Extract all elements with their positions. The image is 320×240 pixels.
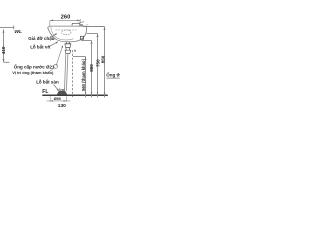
svg-text:WL: WL [14, 29, 22, 35]
svg-text:FL: FL [42, 89, 48, 95]
leader vi tri ong [49, 68, 55, 73]
trap tail pipe [65, 42, 71, 44]
rim right tick [86, 24, 88, 26]
small fitting dot [74, 50, 76, 52]
right leader 2 [87, 34, 98, 98]
waste pipe dashed line [72, 50, 74, 97]
leader gia do chau [51, 34, 57, 38]
bracket [80, 36, 83, 39]
svg-text:260: 260 [61, 14, 71, 20]
trap waist [66, 48, 70, 51]
basin hidden drain ellipse [62, 30, 71, 35]
svg-text:850: 850 [101, 55, 106, 63]
trap nut 2 [65, 50, 71, 53]
svg-text:Lỗ bắt sàn: Lỗ bắt sàn [36, 78, 59, 84]
WL reference line [0, 26, 14, 28]
svg-text:Lỗ bắt vít: Lỗ bắt vít [30, 44, 51, 50]
svg-text:800: 800 [89, 64, 94, 72]
leader lo bat vit [48, 42, 58, 48]
faucet knob [80, 24, 83, 26]
floor line FL [42, 94, 108, 96]
svg-text:560 (tham khảo): 560 (tham khảo) [81, 59, 86, 91]
svg-text:410: 410 [1, 46, 6, 54]
faucet [72, 23, 80, 26]
leader ong cap nuoc [56, 46, 63, 67]
trap nut 1 [65, 44, 71, 48]
inner bowl line [51, 27, 74, 40]
basin hidden dashed line [56, 29, 79, 31]
svg-text:Ống cấp nước Ø21: Ống cấp nước Ø21 [14, 63, 55, 69]
dim arrows right lines [85, 27, 106, 95]
svg-text:130: 130 [58, 103, 66, 109]
dimension line 260 [50, 19, 80, 26]
svg-text:Ống thải: Ống thải [106, 72, 120, 78]
right leader 3 [81, 41, 92, 98]
below-floor dim ticks [47, 96, 71, 102]
pedestal foot [57, 91, 67, 94]
right leader 4 [73, 57, 86, 98]
drain pipe down [65, 54, 68, 91]
reference circle [54, 64, 58, 68]
leader lo bat san [54, 85, 59, 91]
basin outline [48, 26, 87, 42]
left vertical dimension line [4, 30, 10, 63]
svg-text:Ø55: Ø55 [54, 97, 61, 101]
svg-text:Giá đỡ chậu: Giá đỡ chậu [28, 36, 54, 41]
faucet lever [78, 22, 85, 24]
svg-text:Vị trí ống (tham khảo): Vị trí ống (tham khảo) [12, 70, 54, 75]
dim arrows left line [3, 30, 5, 62]
right leader 1 [83, 27, 105, 98]
dim 20 ticks [59, 88, 64, 92]
